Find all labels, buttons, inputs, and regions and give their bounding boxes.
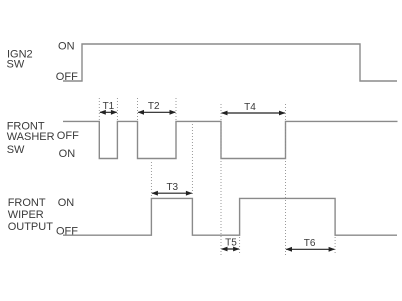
dimension arrow T2	[138, 111, 175, 113]
svg-text:OFF: OFF	[57, 130, 79, 142]
node T2 left dotted line	[137, 98, 139, 121]
svg-text:T5: T5	[225, 237, 237, 248]
wire FRONT WIPER OUTPUT waveform	[63, 198, 397, 235]
svg-text:FRONT: FRONT	[8, 197, 46, 209]
node T3 left dotted line	[150, 162, 152, 196]
svg-text:WIPER: WIPER	[8, 209, 44, 221]
node T1 left dotted line	[98, 98, 100, 121]
svg-text:T2: T2	[148, 101, 160, 112]
svg-text:ON: ON	[59, 148, 76, 160]
node T2 right dotted line	[175, 98, 177, 121]
dimension arrow T6	[286, 248, 334, 250]
node T6 right dotted line	[334, 237, 336, 255]
wire IGN2 SW waveform	[63, 44, 397, 81]
svg-text:OFF: OFF	[56, 225, 78, 237]
dimension arrow T3	[152, 192, 192, 194]
svg-text:OFF: OFF	[56, 71, 78, 83]
node T5 right dotted line	[239, 237, 241, 255]
svg-text:T3: T3	[166, 182, 178, 193]
svg-text:SW: SW	[7, 59, 25, 71]
node T4 left dotted line	[220, 104, 222, 255]
wire FRONT WASHER SW waveform	[63, 121, 398, 158]
dimension arrow T4	[222, 112, 285, 114]
svg-text:ON: ON	[58, 41, 75, 53]
svg-text:SW: SW	[7, 144, 25, 156]
svg-text:OUTPUT: OUTPUT	[8, 221, 54, 233]
svg-text:WASHER: WASHER	[7, 131, 55, 143]
node T4 right dotted line	[285, 104, 287, 255]
dimension arrow T1	[100, 111, 117, 113]
svg-text:T6: T6	[304, 238, 316, 249]
dimension arrow T5	[222, 248, 239, 250]
node T1 right dotted line	[116, 98, 118, 121]
svg-text:T1: T1	[103, 101, 115, 112]
node T3 right dotted line	[191, 124, 193, 196]
svg-text:T4: T4	[244, 102, 256, 113]
svg-text:ON: ON	[58, 197, 75, 209]
